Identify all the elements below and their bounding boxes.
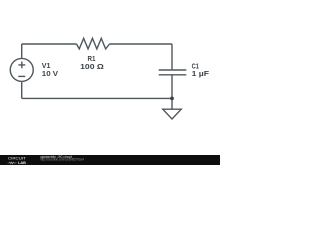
svg-text:LAB: LAB (18, 161, 26, 165)
svg-text:http://circuitlab.com/c/e5bt65: http://circuitlab.com/c/e5bt65/76zx4 (40, 158, 84, 162)
wire ground lead (171, 98, 173, 109)
CircuitLab logo waveform (8, 162, 17, 164)
wire capacitor top lead (171, 44, 173, 69)
capacitor C1 bottom plate (159, 74, 187, 76)
voltage source plus sign (18, 62, 25, 69)
resistor R1 (77, 38, 110, 49)
ground symbol (163, 109, 181, 119)
wire source top lead (21, 44, 23, 58)
wire source bottom lead (21, 82, 23, 98)
wire bottom horizontal (22, 97, 172, 99)
capacitor C1 top plate (159, 69, 187, 71)
wire capacitor bottom lead (171, 76, 173, 99)
footer watermark bar (0, 155, 220, 165)
wire top horizontal right (110, 43, 173, 45)
voltage source V1 circle (10, 58, 33, 81)
voltage source minus sign (18, 75, 25, 77)
wire top horizontal left (22, 43, 77, 45)
junction node dot (170, 97, 174, 101)
